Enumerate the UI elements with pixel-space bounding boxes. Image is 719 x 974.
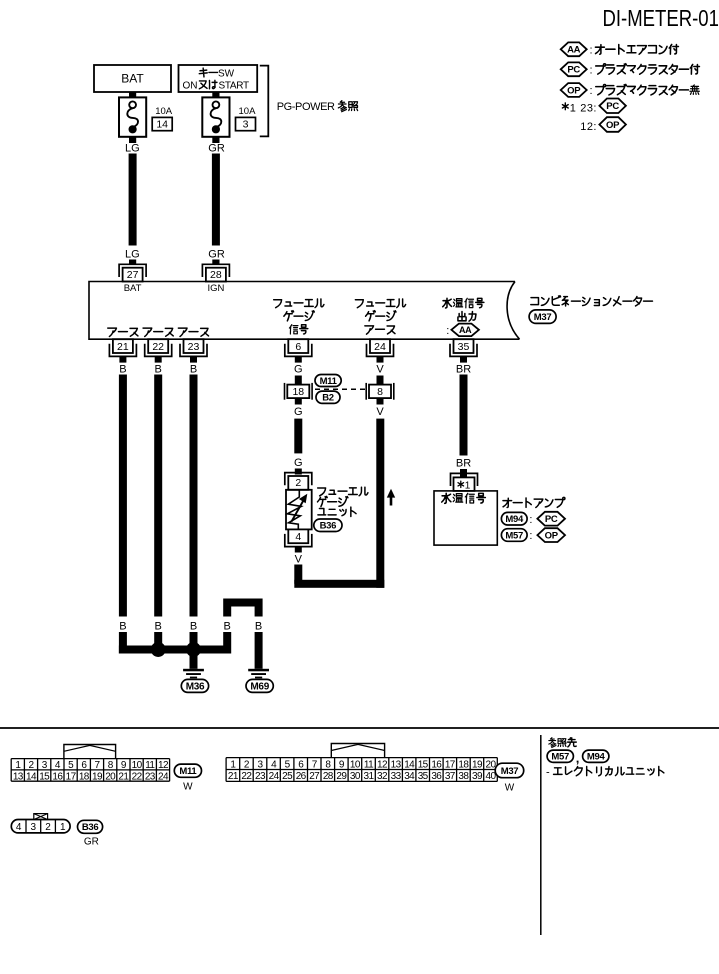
svg-text:B: B — [155, 620, 162, 632]
svg-text:10A: 10A — [155, 106, 173, 117]
svg-text:B2: B2 — [322, 393, 334, 404]
svg-text:M57: M57 — [505, 530, 523, 541]
svg-text:LG: LG — [125, 143, 140, 155]
svg-text:28: 28 — [323, 771, 334, 782]
svg-text:V: V — [376, 364, 384, 376]
svg-text:M36: M36 — [186, 682, 205, 693]
svg-text::: : — [446, 325, 449, 337]
svg-text:M69: M69 — [250, 682, 269, 693]
svg-text:36: 36 — [431, 771, 442, 782]
svg-text:3: 3 — [243, 119, 249, 131]
svg-text:M37: M37 — [501, 766, 519, 777]
svg-text:GR: GR — [208, 248, 225, 260]
svg-text:B: B — [155, 364, 162, 376]
svg-text:23: 23 — [255, 771, 266, 782]
svg-text:24: 24 — [158, 771, 169, 782]
svg-text:19: 19 — [472, 759, 483, 770]
svg-text:10: 10 — [350, 759, 361, 770]
svg-text:17: 17 — [445, 759, 456, 770]
svg-text:IGN: IGN — [207, 283, 224, 294]
svg-text:19: 19 — [92, 771, 103, 782]
svg-text:START: START — [219, 80, 250, 91]
svg-text:22: 22 — [152, 341, 164, 353]
svg-text:B: B — [190, 620, 197, 632]
svg-text:1: 1 — [570, 102, 576, 114]
svg-text:14: 14 — [26, 771, 37, 782]
svg-text:31: 31 — [364, 771, 375, 782]
svg-text:B: B — [224, 620, 231, 632]
svg-text:30: 30 — [350, 771, 361, 782]
svg-text:11: 11 — [145, 760, 155, 771]
svg-text:22: 22 — [132, 771, 143, 782]
svg-text:M11: M11 — [320, 376, 338, 387]
svg-text:AA: AA — [459, 325, 472, 335]
svg-text:-: - — [546, 766, 550, 778]
svg-text:PC: PC — [545, 514, 558, 525]
svg-text:4: 4 — [16, 822, 22, 833]
svg-text:28: 28 — [210, 269, 222, 281]
svg-text:12:: 12: — [580, 121, 597, 133]
svg-text:PC: PC — [567, 65, 580, 76]
svg-text:23: 23 — [145, 771, 156, 782]
svg-text:B: B — [119, 620, 126, 632]
svg-text:GR: GR — [84, 837, 99, 848]
svg-text:18: 18 — [458, 759, 469, 770]
svg-text:16: 16 — [431, 759, 442, 770]
svg-text:17: 17 — [66, 771, 77, 782]
svg-text:4: 4 — [295, 531, 301, 543]
svg-text:35: 35 — [458, 341, 470, 353]
svg-text:10: 10 — [132, 760, 143, 771]
svg-text:PC: PC — [606, 101, 619, 112]
svg-text:15: 15 — [39, 771, 50, 782]
svg-text:23: 23 — [188, 341, 200, 353]
svg-text:M11: M11 — [179, 766, 197, 777]
svg-text:22: 22 — [241, 771, 252, 782]
svg-text:21: 21 — [117, 341, 129, 353]
svg-text:32: 32 — [377, 771, 388, 782]
svg-text:W: W — [505, 783, 515, 794]
svg-text:1: 1 — [465, 480, 471, 491]
svg-text:25: 25 — [282, 771, 293, 782]
svg-text:11: 11 — [364, 759, 374, 770]
svg-text:BR: BR — [456, 458, 471, 470]
svg-text:24: 24 — [269, 771, 280, 782]
svg-text:3: 3 — [31, 822, 37, 833]
svg-text:M94: M94 — [505, 514, 524, 525]
svg-text:6: 6 — [295, 341, 301, 353]
svg-text:10A: 10A — [239, 106, 257, 117]
svg-text:BAT: BAT — [124, 283, 142, 294]
svg-text::: : — [590, 65, 593, 77]
svg-text:33: 33 — [391, 771, 402, 782]
svg-text:14: 14 — [156, 119, 168, 131]
svg-text:B: B — [190, 364, 197, 376]
svg-text:GR: GR — [208, 143, 225, 155]
svg-text:38: 38 — [458, 771, 469, 782]
svg-text:G: G — [294, 364, 303, 376]
svg-text:18: 18 — [79, 771, 90, 782]
svg-text:34: 34 — [404, 771, 415, 782]
svg-text::: : — [590, 85, 593, 97]
svg-text:27: 27 — [127, 269, 139, 281]
svg-text:14: 14 — [404, 759, 415, 770]
svg-text:BR: BR — [456, 364, 471, 376]
svg-text:39: 39 — [472, 771, 483, 782]
svg-text:37: 37 — [445, 771, 456, 782]
svg-text:20: 20 — [105, 771, 116, 782]
svg-text:BAT: BAT — [121, 72, 144, 86]
svg-text:35: 35 — [418, 771, 429, 782]
svg-text:B36: B36 — [82, 822, 99, 833]
svg-text:12: 12 — [158, 760, 169, 771]
svg-text::: : — [529, 530, 532, 542]
svg-text:V: V — [376, 406, 384, 418]
svg-text:12: 12 — [377, 759, 388, 770]
svg-text:OP: OP — [545, 531, 559, 542]
svg-text:24: 24 — [374, 341, 386, 353]
svg-text:V: V — [295, 554, 303, 566]
svg-text:B36: B36 — [320, 521, 337, 532]
svg-text:G: G — [294, 457, 303, 469]
svg-text:OP: OP — [606, 120, 620, 131]
svg-text:8: 8 — [377, 386, 383, 398]
svg-text:DI-METER-01: DI-METER-01 — [603, 6, 719, 31]
svg-text:29: 29 — [336, 771, 347, 782]
svg-text:23:: 23: — [580, 102, 597, 114]
svg-text:1: 1 — [60, 822, 66, 833]
svg-text:AA: AA — [567, 45, 581, 56]
svg-text:2: 2 — [45, 822, 51, 833]
svg-text:SW: SW — [218, 69, 235, 80]
svg-text:M94: M94 — [587, 752, 606, 763]
svg-text:W: W — [183, 782, 193, 793]
svg-text:PG-POWER: PG-POWER — [277, 101, 335, 113]
svg-text:15: 15 — [418, 759, 429, 770]
svg-text:27: 27 — [309, 771, 320, 782]
svg-text:21: 21 — [118, 771, 129, 782]
svg-text::: : — [529, 514, 532, 526]
svg-text:13: 13 — [13, 771, 24, 782]
svg-text:2: 2 — [295, 477, 301, 489]
svg-text:21: 21 — [228, 771, 239, 782]
svg-text:G: G — [294, 406, 303, 418]
svg-text:18: 18 — [292, 386, 304, 398]
svg-text:,: , — [576, 751, 580, 766]
svg-text:LG: LG — [125, 248, 140, 260]
svg-text:ON: ON — [183, 80, 198, 91]
svg-text:26: 26 — [296, 771, 307, 782]
svg-text:13: 13 — [391, 759, 402, 770]
svg-text:M57: M57 — [551, 752, 569, 763]
svg-text:M37: M37 — [534, 312, 552, 323]
svg-text:16: 16 — [52, 771, 63, 782]
svg-text::: : — [590, 45, 593, 57]
svg-text:B: B — [119, 364, 126, 376]
svg-text:B: B — [255, 620, 262, 632]
svg-text:OP: OP — [567, 85, 581, 96]
